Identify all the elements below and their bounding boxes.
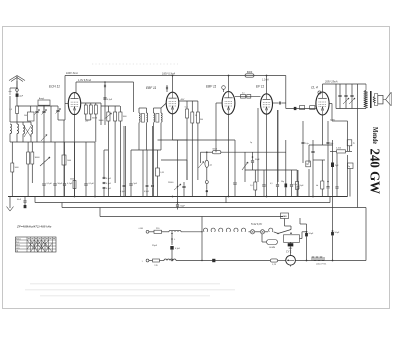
wire input mid: [10, 141, 95, 143]
node ant junction: [16, 87, 17, 88]
wire sec drop: [357, 84, 359, 208]
wire: [138, 108, 140, 113]
svg-text:0,1µ: 0,1µ: [294, 184, 298, 186]
ground GND1: [9, 197, 11, 209]
transformer TR1 primary: [364, 90, 367, 107]
wire h net: [336, 108, 366, 110]
svg-text:0,1µF: 0,1µF: [175, 248, 181, 250]
switch S ant: [9, 88, 12, 95]
wire: [274, 232, 278, 234]
wire: [160, 108, 162, 113]
wire: [11, 142, 13, 163]
svg-text:5,100: 5,100: [336, 148, 342, 150]
wire cone link: [383, 99, 386, 101]
capacitor C17: [336, 186, 339, 188]
svg-text:5×12 6,3V: 5×12 6,3V: [251, 223, 262, 226]
capacitor C19: [53, 183, 56, 185]
wire: [285, 140, 287, 184]
wire: [149, 231, 154, 233]
svg-text:Hz: Hz: [316, 185, 318, 187]
table X marks: [27, 240, 34, 249]
wire h tube bottoms: [158, 139, 236, 141]
capacitor block Ausgl: [38, 100, 50, 105]
terminal TA: [205, 181, 208, 184]
capacitor C22d: [151, 184, 154, 186]
terminal AC1: [146, 230, 149, 233]
wire T3 down: [228, 115, 230, 197]
wire h: [179, 100, 198, 102]
wire T5 down: [322, 115, 324, 145]
wire: [216, 102, 222, 104]
capacitor C7 0,1uF: [103, 97, 106, 99]
svg-text:0,1µF: 0,1µF: [106, 183, 112, 185]
wire: [36, 106, 38, 111]
fuse NSF: [288, 243, 294, 246]
svg-text:5000: 5000: [70, 179, 74, 181]
wire h: [215, 140, 217, 152]
svg-text:50µF: 50µF: [58, 183, 64, 185]
wire h: [264, 169, 297, 171]
wire: [200, 152, 202, 163]
wire: [262, 241, 267, 243]
tube V3 EBF11: [222, 92, 235, 115]
wire: [191, 101, 193, 112]
wire T1 cathode down: [74, 115, 76, 197]
svg-text:EF 11: EF 11: [256, 85, 264, 89]
wire lamp row return: [201, 232, 203, 261]
wire h IF2 top: [154, 107, 162, 109]
wire: [9, 134, 11, 142]
svg-text:Wellen: Wellen: [16, 239, 21, 241]
IF transformer T-IF1 coils: [139, 113, 140, 122]
resistor R19 5000: [73, 181, 76, 189]
svg-text:30000: 30000: [35, 157, 40, 159]
urdox resistor VT51: [312, 257, 324, 261]
wire: [54, 142, 56, 183]
svg-text:0,1: 0,1: [242, 92, 245, 94]
resistor R11 6000 in rail: [245, 74, 254, 77]
wire T2 down: [172, 114, 174, 140]
capacitor C12 tone: [344, 94, 347, 96]
svg-text:30mA: 30mA: [92, 117, 98, 120]
svg-text:0,1: 0,1: [270, 183, 273, 185]
wire: [16, 114, 18, 125]
wire: [85, 142, 87, 183]
wire: [43, 186, 45, 197]
svg-text:30000: 30000: [99, 120, 104, 122]
tube V1 ECH11: [68, 93, 80, 115]
svg-text:50µF: 50µF: [255, 159, 260, 161]
capacitor C18: [42, 183, 45, 185]
resistor R13 5100: [337, 150, 346, 153]
resistor R30: [241, 95, 246, 99]
wire: [43, 142, 45, 160]
resistor R17: [27, 152, 30, 164]
wire: [277, 110, 279, 184]
svg-text:2µF: 2µF: [19, 96, 23, 98]
resistor R18: [31, 152, 34, 164]
wire: [31, 142, 33, 152]
capacitor C23b: [103, 181, 106, 183]
svg-text:0,1µF: 0,1µF: [106, 188, 112, 190]
wire rail A right corner: [285, 76, 287, 109]
resistor R3a: [84, 105, 87, 114]
wire: [142, 150, 144, 197]
wire: [119, 121, 121, 197]
svg-text:50µF: 50µF: [335, 232, 340, 234]
svg-text:50µ: 50µ: [281, 181, 284, 183]
coil L1: [17, 124, 19, 134]
wire: [281, 216, 284, 218]
wire input top: [17, 105, 58, 107]
wire bus4: [100, 216, 283, 218]
node blob: [206, 190, 208, 192]
wire: [290, 226, 292, 230]
wire h IF1 top: [139, 107, 147, 109]
wire grid lead to T1: [58, 119, 65, 121]
coil L6: [164, 259, 176, 261]
resistor R23: [296, 182, 299, 190]
svg-text:Lang: Lang: [16, 248, 20, 250]
wire T3 top to rail: [228, 76, 230, 92]
wire TR1 top lead: [365, 84, 367, 90]
potentiometer P6: [41, 135, 47, 142]
wire: [252, 152, 254, 160]
resistor R24 220: [154, 230, 162, 233]
lamp LP1: [250, 230, 254, 234]
wire: [177, 140, 179, 186]
capacitor block C37: [247, 95, 251, 99]
wire: [27, 142, 29, 152]
rectifier tube V6 CY1: [286, 255, 296, 265]
wire: [197, 101, 199, 112]
wire h: [101, 105, 120, 107]
svg-text:100V 0,3mA: 100V 0,3mA: [162, 73, 176, 76]
wire: [206, 152, 208, 160]
wire: [329, 103, 332, 105]
capacitor C23a: [103, 176, 106, 178]
wire vert L: [171, 233, 173, 245]
trimmer C4: [56, 109, 59, 111]
capacitor C23c: [103, 186, 106, 188]
svg-text:1µ: 1µ: [353, 143, 355, 145]
wire T1 grid left: [65, 103, 68, 105]
svg-text:1000: 1000: [123, 116, 127, 118]
capacitor C17b: [297, 186, 300, 188]
crease mark (faint): [92, 63, 178, 65]
svg-text:ZF=468kHz(472) 468 kHz: ZF=468kHz(472) 468 kHz: [16, 225, 52, 229]
wire: [30, 122, 32, 125]
resistor R3b: [89, 105, 92, 114]
resistor R22: [254, 182, 257, 190]
arrow L: [171, 238, 173, 243]
svg-text:CY 1: CY 1: [286, 251, 292, 254]
resistor R21 6000: [212, 151, 221, 154]
wire: [50, 106, 52, 142]
svg-text:Kurz: Kurz: [16, 242, 19, 244]
svg-text:GLIMM: GLIMM: [269, 247, 275, 249]
resistor R29: [62, 155, 66, 165]
wire: [332, 140, 334, 163]
svg-text:0,1µF: 0,1µF: [106, 178, 112, 180]
capacitor C14: [311, 150, 314, 152]
wire: [63, 120, 65, 155]
tube V5 CL4: [316, 92, 329, 115]
electrolytic C28: [285, 184, 288, 188]
svg-text:0,18: 0,18: [160, 172, 164, 174]
capacitor C22b: [123, 184, 126, 186]
wire: [43, 105, 45, 111]
wire: [43, 106, 45, 111]
capacitor C11 tone: [338, 94, 341, 96]
wire T4 top: [266, 76, 268, 94]
potentiometer P3: [174, 184, 181, 190]
wire: [30, 106, 32, 112]
dial lamp row: [203, 228, 207, 232]
table wave band chart: [16, 237, 57, 252]
switch tone arrows: [343, 98, 349, 104]
speaker LS magnet: [378, 95, 383, 104]
meter G1: [205, 160, 209, 167]
transformer TAB: [281, 213, 289, 219]
capacitor C8: [165, 87, 167, 90]
wire: [74, 142, 76, 181]
capacitor C30 10nF: [24, 200, 27, 202]
svg-text:205V 25mA: 205V 25mA: [324, 81, 338, 84]
grid cap C9: [222, 86, 226, 90]
svg-text:5000: 5000: [15, 167, 19, 169]
wire: [349, 169, 351, 197]
wire h: [131, 149, 161, 151]
wire: [114, 106, 116, 112]
wire rail A drop left: [64, 76, 66, 121]
electrolytic C35 50uF: [331, 232, 334, 235]
wire bus3: [62, 207, 366, 209]
wire lamp row feed: [201, 217, 203, 232]
wire crossover: [24, 126, 31, 137]
wire: [186, 101, 188, 109]
svg-text:0,1µF: 0,1µF: [107, 99, 113, 101]
wire rail C: [323, 83, 367, 85]
wire: [16, 134, 18, 142]
resistor R6: [119, 112, 122, 121]
wire rail B: [76, 81, 134, 83]
svg-text:≈110: ≈110: [138, 227, 143, 230]
wire speaker leads: [374, 93, 377, 95]
wire: [308, 145, 310, 163]
svg-text:1,9V 6,5mA: 1,9V 6,5mA: [78, 79, 91, 82]
svg-text:EBF 11: EBF 11: [206, 85, 217, 89]
wire bottom left: [176, 260, 270, 262]
tuning gang C3: [42, 110, 45, 112]
junction dots on buses: [74, 196, 76, 198]
resistor R ant: [16, 106, 19, 114]
glow lamp GL1: [267, 240, 278, 245]
wire bus3 drop right: [365, 208, 367, 261]
svg-text:300: 300: [200, 119, 203, 121]
wire: [123, 126, 125, 185]
svg-text:0,1µF: 0,1µF: [120, 191, 126, 193]
capacitor C27: [276, 184, 279, 186]
capacitor C39: [327, 141, 330, 143]
wire bus2 stub: [34, 197, 36, 203]
wire: [146, 108, 148, 113]
wire: [244, 152, 246, 166]
capacitor C22: [129, 183, 132, 185]
svg-text:1000: 1000: [67, 160, 71, 162]
wire: [291, 170, 293, 184]
transformer core bar: [370, 91, 372, 108]
wire: [290, 241, 292, 244]
wire ant branch: [10, 87, 17, 89]
wire T3-T4 link: [235, 95, 261, 97]
svg-text:CL 4: CL 4: [311, 86, 318, 90]
capacitor C38: [302, 141, 305, 143]
wire: [146, 150, 148, 185]
resistor R25 1,25: [270, 259, 277, 262]
wire: [206, 184, 208, 190]
capacitor C24 50uF: [176, 204, 179, 206]
wire antenna lead: [16, 81, 18, 88]
wire: [330, 150, 337, 152]
resistor R28: [310, 106, 315, 110]
electrolytic C32: [212, 259, 215, 262]
potentiometer P4: [242, 162, 248, 170]
faint print-through text: [30, 283, 220, 284]
wire: [254, 170, 256, 182]
svg-text:240 GW: 240 GW: [366, 149, 381, 195]
wire T5 top: [322, 84, 324, 92]
svg-text:0,1µF: 0,1µF: [89, 183, 95, 185]
wire: [373, 94, 375, 97]
node: [104, 81, 106, 83]
wire: [249, 231, 251, 233]
potentiometer P1: [107, 112, 110, 121]
svg-text:ECH 11: ECH 11: [49, 85, 60, 89]
wire: [335, 84, 337, 109]
capacitor block C40: [347, 140, 352, 146]
wire: [149, 260, 153, 262]
tube V5 top dome: [318, 91, 321, 94]
svg-text:TAB: TAB: [282, 215, 287, 218]
capacitor C10: [278, 102, 280, 105]
coupling circle: [16, 87, 18, 90]
wire h: [173, 139, 188, 141]
wire bus3 stub: [61, 203, 63, 208]
wire rail A: [65, 75, 286, 77]
table header ticks: [28, 238, 30, 240]
wire: [81, 102, 101, 104]
wire: [181, 231, 202, 233]
wire IF to grid T2: [161, 103, 166, 108]
capacitor C16: [327, 186, 330, 188]
capacitor C22c: [146, 184, 149, 186]
wire bus2 end stub: [329, 197, 331, 203]
wire h: [295, 260, 366, 262]
terminal AC2: [146, 259, 149, 262]
wire h: [245, 169, 264, 171]
wire: [86, 119, 91, 121]
wire: [100, 103, 102, 125]
wire: [171, 250, 173, 261]
lamp LP2: [260, 230, 264, 234]
wire: [152, 126, 154, 185]
svg-text:M: M: [307, 163, 309, 166]
wire: [125, 126, 127, 197]
wire: [177, 187, 179, 205]
svg-text:25µF: 25µF: [152, 245, 158, 247]
capacitor C20: [63, 183, 66, 185]
wire: [347, 155, 349, 197]
resistor R8: [186, 109, 189, 118]
wire: [57, 106, 59, 110]
wire switch to bus: [300, 238, 303, 240]
wire: [103, 150, 105, 177]
wire: [22, 122, 24, 125]
wire: [265, 231, 268, 233]
svg-text:Ausgl.: Ausgl.: [39, 97, 45, 100]
capacitor C26: [262, 184, 265, 186]
capacitor C23: [182, 185, 185, 187]
wire bus4 stub: [99, 208, 101, 217]
wire: [306, 224, 308, 233]
svg-text:500: 500: [24, 115, 27, 117]
wire ground bus: [8, 196, 348, 198]
capacitor C13: [350, 94, 353, 96]
wire: [130, 150, 132, 183]
capacitor C5: [103, 85, 105, 88]
antenna A1: [9, 76, 25, 82]
wire: [234, 140, 236, 182]
electrolytic C36: [294, 107, 297, 110]
trimmer C2: [35, 110, 38, 112]
lamp bump: [269, 228, 273, 232]
wire anode feed line: [201, 151, 213, 153]
wire: [153, 108, 155, 113]
coil L4: [31, 125, 33, 134]
tube V4 EF11: [261, 94, 273, 114]
tube V2 EBF11: [166, 92, 179, 114]
wire: [255, 231, 261, 233]
wire: [186, 160, 188, 180]
capacitor C ant 2uF: [16, 94, 19, 97]
svg-text:EBF 11: EBF 11: [146, 86, 157, 90]
wire T2 top: [172, 76, 174, 93]
electrolytic C34 50uF: [306, 231, 308, 233]
resistor R3c: [94, 105, 97, 114]
wire: [321, 160, 323, 181]
coil L2: [10, 124, 12, 134]
capacitor C33 0,1uF: [170, 246, 173, 250]
wire h mid: [161, 159, 187, 161]
wire input link: [10, 121, 31, 123]
wire: [94, 142, 96, 197]
wire bus2: [35, 202, 330, 204]
box M1: [306, 161, 311, 167]
svg-text:50µF: 50µF: [309, 233, 314, 235]
svg-text:25000: 25000: [168, 182, 173, 184]
wire: [206, 192, 208, 196]
capacitor C25 50uF: [251, 160, 254, 162]
resistor R20: [156, 168, 160, 176]
switch SW1 mains: [284, 235, 300, 243]
coil L5: [169, 230, 181, 231]
wire T1 anode top: [75, 82, 77, 93]
wire: [64, 142, 66, 183]
wire: [225, 197, 227, 204]
resistor R26 170: [153, 259, 160, 262]
resistor R16 5000: [11, 163, 14, 172]
